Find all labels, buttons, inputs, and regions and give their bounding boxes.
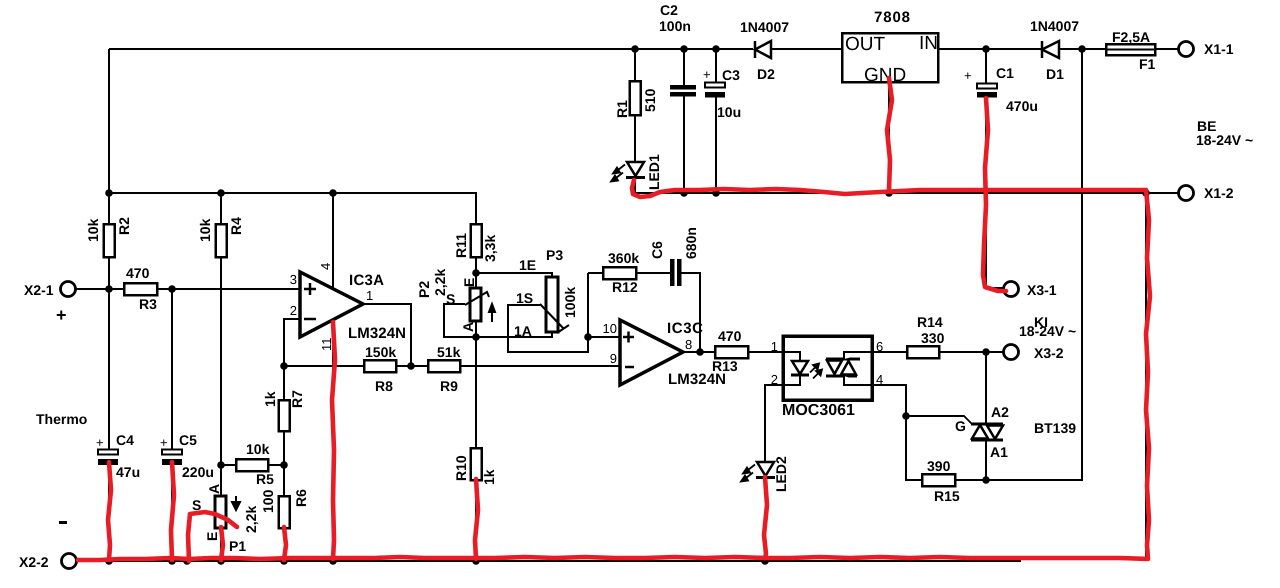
resistor R11 xyxy=(471,224,482,257)
connector X2-1 xyxy=(61,282,76,297)
wire R2 column xyxy=(108,193,110,224)
wire LED1 cathode stub xyxy=(634,178,636,193)
wire C5 top column xyxy=(171,289,173,449)
wire MOC pin6 to R14 xyxy=(872,351,907,353)
wire R10 bottom xyxy=(475,480,477,561)
svg-text:+: + xyxy=(964,68,972,83)
svg-text:IC3A: IC3A xyxy=(349,272,384,289)
wire R13 to MOC pin1 xyxy=(748,351,783,353)
svg-text:GND: GND xyxy=(864,65,906,86)
svg-text:R13: R13 xyxy=(712,358,738,374)
capacitor C5 xyxy=(162,450,182,455)
svg-text:360k: 360k xyxy=(608,250,639,266)
svg-text:R15: R15 xyxy=(934,488,960,504)
svg-text:X1-1: X1-1 xyxy=(1204,41,1234,57)
svg-text:1: 1 xyxy=(366,288,373,303)
wire C3 top xyxy=(715,49,717,82)
svg-text:8: 8 xyxy=(685,337,692,352)
wire red P1 wiper S xyxy=(188,512,237,561)
wire triac A1 down xyxy=(985,440,987,480)
svg-text:C6: C6 xyxy=(649,241,665,259)
wire C1 top xyxy=(985,49,987,83)
svg-text:18-24V ~: 18-24V ~ xyxy=(1019,323,1076,339)
wire D2 anode to 7808 OUT xyxy=(771,48,842,50)
wire IC3A pin2 loop xyxy=(284,319,300,366)
svg-text:470: 470 xyxy=(718,328,742,344)
wire C1 bottom to X3-1 xyxy=(986,97,1003,288)
wire C2 top xyxy=(683,49,685,85)
svg-text:G: G xyxy=(955,418,966,434)
resistor R7 xyxy=(279,400,290,431)
wire R15 to A1 node xyxy=(955,479,986,481)
wire R5 left xyxy=(221,464,236,466)
wire IC3C out node to R13 xyxy=(683,351,715,353)
resistor R14 xyxy=(907,346,939,358)
wire red IC3A pin11 xyxy=(332,322,335,559)
wire R8 to R9 node xyxy=(396,365,428,367)
wire R9 to IC3C pin9 xyxy=(460,365,620,367)
svg-text:2,2k: 2,2k xyxy=(243,506,259,533)
wire IC3A out to feedback node xyxy=(363,304,411,366)
wire IC3A pin11 to bottom bus xyxy=(332,320,334,561)
svg-text:OUT: OUT xyxy=(845,34,886,55)
wire red C1 to X3-1 xyxy=(983,98,1006,291)
svg-text:7808: 7808 xyxy=(874,9,910,26)
wire MOC pin2 to LED2 xyxy=(765,385,783,462)
op-amp U IC3A xyxy=(300,272,363,337)
svg-text:100k: 100k xyxy=(562,287,578,318)
resistor R6 xyxy=(279,496,290,528)
wire R11 bottom to 1E node xyxy=(475,257,477,288)
svg-text:IN: IN xyxy=(919,33,938,54)
potentiometer P1 body xyxy=(215,496,226,528)
svg-text:R3: R3 xyxy=(139,296,157,312)
wire C5 minus lead xyxy=(171,465,173,561)
svg-text:51k: 51k xyxy=(437,344,461,360)
connector X3-1 xyxy=(1004,282,1019,297)
triac Q1 BT139 xyxy=(971,424,1003,440)
svg-text:R2: R2 xyxy=(116,217,132,235)
wire R2 bottom to X2-1 node xyxy=(108,257,110,289)
svg-text:C2: C2 xyxy=(660,2,678,18)
svg-text:A: A xyxy=(460,322,476,332)
wire fuse to X1-1 xyxy=(1155,48,1178,50)
svg-text:1k: 1k xyxy=(262,391,278,407)
svg-text:C3: C3 xyxy=(722,67,740,83)
wire X3-2 node down to triac A2 xyxy=(985,352,987,424)
wire R12 left xyxy=(588,272,603,274)
svg-text:X2-2: X2-2 xyxy=(19,554,49,570)
svg-text:D1: D1 xyxy=(1046,66,1064,82)
svg-text:C4: C4 xyxy=(116,432,134,448)
svg-text:10: 10 xyxy=(603,321,617,336)
svg-text:C5: C5 xyxy=(179,432,197,448)
wire P2 bottom to A node xyxy=(475,321,477,340)
wire R12 to C6 xyxy=(636,272,671,274)
LED LED1 xyxy=(626,162,645,178)
svg-text:R6: R6 xyxy=(293,489,309,507)
wire red P1 E lead xyxy=(221,527,223,560)
wire IC3A pin4 xyxy=(332,193,334,289)
svg-text:IC3C: IC3C xyxy=(667,320,703,337)
wire red 7808 GND drop xyxy=(887,78,892,191)
connector X2-2 xyxy=(62,554,77,569)
svg-text:1S: 1S xyxy=(516,290,533,306)
optocoupler internal triac xyxy=(826,352,872,385)
svg-text:E: E xyxy=(204,532,220,541)
diode D1 xyxy=(1042,41,1059,58)
LED LED2 xyxy=(756,462,775,478)
wire red R10 lead xyxy=(475,479,478,559)
resistor R4 xyxy=(216,224,227,257)
optocoupler internal arrows xyxy=(810,364,822,379)
svg-text:3: 3 xyxy=(290,272,297,287)
svg-text:1N4007: 1N4007 xyxy=(1030,18,1079,34)
svg-text:680n: 680n xyxy=(683,227,699,259)
resistor R8 xyxy=(364,360,396,372)
svg-text:X3-1: X3-1 xyxy=(1027,282,1057,298)
svg-text:D2: D2 xyxy=(757,66,775,82)
wire P1 E lead xyxy=(220,528,222,561)
connector X3-2 xyxy=(1004,345,1019,360)
resistor R12 xyxy=(603,267,636,279)
svg-text:MOC3061: MOC3061 xyxy=(782,402,855,419)
svg-text:10k: 10k xyxy=(197,218,213,242)
svg-text:330: 330 xyxy=(921,330,945,346)
capacitor C6 xyxy=(670,259,682,286)
wire R12/C6 node down to pin10 node xyxy=(587,273,589,337)
wire 1E to P3 top xyxy=(476,273,552,277)
svg-text:X3-2: X3-2 xyxy=(1034,345,1064,361)
wire R6 top xyxy=(283,465,285,496)
capacitor C3 xyxy=(705,83,725,88)
svg-text:+: + xyxy=(56,305,67,325)
svg-text:10k: 10k xyxy=(246,441,270,457)
wire R3 to IC3A pin3 xyxy=(157,288,300,290)
svg-text:E: E xyxy=(461,278,477,287)
wire R1 bottom to LED1 xyxy=(634,115,636,162)
wire R5 node to P1 top xyxy=(220,465,222,496)
potentiometer P2 wiper xyxy=(465,292,489,305)
wire C2 bottom xyxy=(683,96,685,193)
wire 7808 GND pin xyxy=(888,82,890,193)
svg-text:1N4007: 1N4007 xyxy=(740,19,789,35)
wire triac gate xyxy=(906,416,972,424)
svg-text:10k: 10k xyxy=(85,218,101,242)
potentiometer P2 body xyxy=(470,288,481,321)
svg-text:6: 6 xyxy=(876,339,883,354)
wire red LED2 lead xyxy=(764,477,767,558)
wire bottom bus xyxy=(76,560,1021,562)
wire X1-2 column down xyxy=(1145,193,1147,558)
wire R5 right xyxy=(268,464,284,466)
svg-text:P2: P2 xyxy=(416,281,432,298)
svg-text:1: 1 xyxy=(771,339,778,354)
wire C6 to feedback drop xyxy=(681,273,700,352)
svg-text:R10: R10 xyxy=(453,455,469,481)
svg-text:1A: 1A xyxy=(514,323,532,339)
wire A node to P3 bottom 1A xyxy=(476,332,552,337)
svg-text:47u: 47u xyxy=(116,464,140,480)
svg-text:A1: A1 xyxy=(990,444,1008,460)
resistor R3 xyxy=(124,283,157,295)
potentiometer P3 body xyxy=(546,277,558,332)
svg-text:R1: R1 xyxy=(614,100,630,118)
wire left drop x=109 top corner xyxy=(108,49,110,193)
svg-text:R7: R7 xyxy=(289,390,305,408)
wire X2-1 to R3 xyxy=(76,288,124,290)
svg-text:10u: 10u xyxy=(717,104,741,120)
wire pin10 node to IC3C xyxy=(588,336,620,338)
svg-text:150k: 150k xyxy=(365,344,396,360)
svg-text:LED2: LED2 xyxy=(773,456,789,492)
svg-text:LED1: LED1 xyxy=(646,154,662,190)
svg-text:BT139: BT139 xyxy=(1034,420,1076,436)
optocoupler internal LED xyxy=(783,352,800,385)
svg-text:2: 2 xyxy=(771,372,778,387)
label minus X2 xyxy=(59,521,67,524)
svg-text:F2,5A: F2,5A xyxy=(1112,29,1150,45)
svg-text:C1: C1 xyxy=(996,65,1014,81)
resistor R5 xyxy=(236,459,268,471)
capacitor C4 xyxy=(98,450,118,455)
svg-text:LM324N: LM324N xyxy=(348,325,406,342)
wire GND rail y=193 right part xyxy=(635,192,1178,194)
wire R7 top xyxy=(283,366,285,400)
svg-text:510: 510 xyxy=(642,88,658,112)
potentiometer P1 arrow down xyxy=(232,496,240,510)
wire C3 bottom xyxy=(715,97,717,193)
svg-text:3,3k: 3,3k xyxy=(482,235,498,262)
svg-text:R9: R9 xyxy=(440,378,458,394)
wire R4 bottom column to R5 node xyxy=(220,257,222,465)
wire top +V rail y=49 xyxy=(109,48,753,50)
svg-text:Thermo: Thermo xyxy=(36,411,87,427)
resistor R10 xyxy=(471,448,482,480)
svg-text:9: 9 xyxy=(610,351,617,366)
wire red C5 lead xyxy=(171,462,174,560)
potentiometer P2 arrow up xyxy=(489,304,495,322)
svg-text:P3: P3 xyxy=(546,247,563,263)
diode D2 xyxy=(755,41,771,58)
wire P3 1S loop xyxy=(508,305,588,352)
wire R7 bottom to R5 node xyxy=(283,431,285,465)
wire red C4 lead xyxy=(108,462,111,560)
svg-text:S: S xyxy=(446,291,455,307)
svg-text:R14: R14 xyxy=(917,314,943,330)
fuse F1 center line xyxy=(1106,49,1155,51)
wire C4 minus lead xyxy=(108,465,110,561)
wire A node down to R10 xyxy=(475,337,477,448)
wire D1 node down to triac loop xyxy=(986,49,1082,480)
connector X1-2 xyxy=(1179,186,1194,201)
resistor R15 xyxy=(922,474,955,486)
svg-text:100n: 100n xyxy=(659,18,691,34)
resistor R2 xyxy=(104,224,115,257)
svg-text:R12: R12 xyxy=(612,279,638,295)
svg-text:1E: 1E xyxy=(519,257,536,273)
wire R1 top xyxy=(634,49,636,81)
capacitor C1 xyxy=(977,84,997,89)
svg-text:P1: P1 xyxy=(229,538,246,554)
wire R4 top xyxy=(220,193,222,224)
resistor R1 xyxy=(630,81,641,115)
svg-text:+: + xyxy=(703,67,711,82)
svg-text:100: 100 xyxy=(260,489,276,513)
wire MOC pin4 down to R15 xyxy=(872,385,922,480)
svg-text:+: + xyxy=(160,435,168,450)
svg-text:X1-2: X1-2 xyxy=(1204,185,1234,201)
fuse F1 xyxy=(1106,44,1155,55)
potentiometer P3 wiper xyxy=(540,304,569,333)
svg-text:F1: F1 xyxy=(1139,56,1156,72)
svg-text:1k: 1k xyxy=(481,469,497,485)
svg-text:R5: R5 xyxy=(256,471,274,487)
connector X1-1 xyxy=(1179,42,1194,57)
wire D1 anode to fuse node xyxy=(1059,48,1106,50)
wire 7808 IN to C1 node xyxy=(938,48,986,50)
LED LED2 emission arrows xyxy=(741,465,755,482)
svg-text:A: A xyxy=(206,484,222,494)
svg-text:18-24V ~: 18-24V ~ xyxy=(1196,132,1253,148)
wire pin2 node to R8 xyxy=(284,365,364,367)
svg-text:470u: 470u xyxy=(1006,98,1038,114)
resistor R9 xyxy=(428,360,460,372)
svg-text:470: 470 xyxy=(126,265,150,281)
wire C1 node to D1 cathode xyxy=(986,48,1042,50)
capacitor C2 xyxy=(670,85,696,97)
wire P2 S loop xyxy=(444,304,476,337)
svg-text:+: + xyxy=(96,435,104,450)
LED LED1 emission arrows xyxy=(611,165,625,182)
svg-text:A2: A2 xyxy=(991,404,1009,420)
regulator 7808 box xyxy=(842,33,938,82)
svg-text:X2-1: X2-1 xyxy=(24,282,54,298)
op-amp U IC3C xyxy=(620,320,683,385)
wire left +8V rail y=193 xyxy=(109,193,476,224)
wire red R6 lead xyxy=(284,527,286,560)
wire red highlight main loop LED1 to X1-2 to bottom bus xyxy=(78,180,1150,560)
svg-text:220u: 220u xyxy=(182,464,214,480)
svg-text:R8: R8 xyxy=(375,378,393,394)
wire R14 to X3-2 node xyxy=(939,351,1003,353)
svg-text:R4: R4 xyxy=(228,217,244,235)
svg-text:R11: R11 xyxy=(453,233,469,258)
wire X2-1 node down to C4 xyxy=(108,289,110,449)
svg-text:390: 390 xyxy=(927,458,951,474)
optocoupler MOC3061 box xyxy=(783,336,872,400)
svg-text:2: 2 xyxy=(290,303,297,318)
svg-text:4: 4 xyxy=(876,372,883,387)
resistor R13 xyxy=(715,346,748,358)
svg-text:4: 4 xyxy=(318,263,333,270)
